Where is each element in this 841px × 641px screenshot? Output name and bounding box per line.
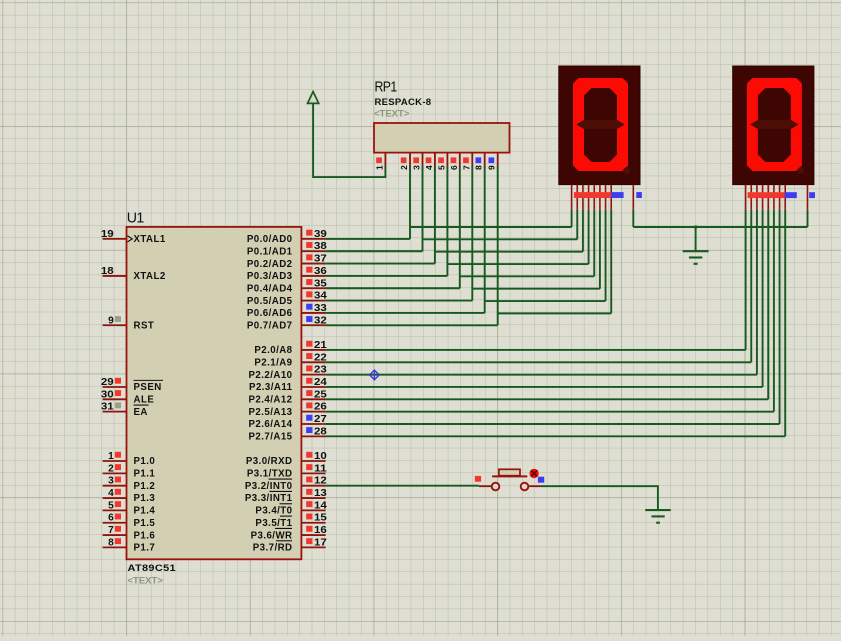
svg-text:26: 26	[314, 402, 328, 413]
svg-text:P1.2: P1.2	[134, 481, 156, 492]
wire net P2.5 (chip pin 26 to 7-seg2)	[326, 210, 774, 412]
svg-text:7: 7	[108, 525, 114, 536]
svg-text:11: 11	[314, 463, 328, 474]
svg-text:3: 3	[412, 165, 422, 170]
svg-text:P2.5/A13: P2.5/A13	[249, 407, 293, 418]
wire net P0.3 (chip pin 36 to RP1 pin 5 / 7-seg1)	[326, 166, 589, 276]
svg-text:17: 17	[314, 537, 327, 548]
svg-text:1: 1	[108, 451, 114, 462]
pin 23 P2.2/A10 (right)	[249, 365, 328, 381]
pin 32 P0.7/AD7 (right)	[247, 315, 327, 331]
svg-text:P2.6/A14: P2.6/A14	[249, 419, 293, 430]
svg-text:37: 37	[314, 254, 327, 265]
svg-text:P3.6/WR: P3.6/WR	[251, 530, 293, 541]
svg-text:<TEXT>: <TEXT>	[374, 109, 410, 120]
svg-text:XTAL1: XTAL1	[134, 234, 166, 245]
svg-text:P0.7/AD7: P0.7/AD7	[247, 320, 293, 331]
svg-text:22: 22	[314, 352, 327, 363]
wire P3.2/INT0 to button	[326, 485, 479, 487]
pin 7 of RP1	[461, 153, 472, 170]
svg-text:27: 27	[314, 414, 327, 425]
button actuator marker	[529, 469, 538, 478]
svg-text:4: 4	[424, 165, 434, 170]
svg-text:19: 19	[101, 229, 115, 240]
svg-text:36: 36	[314, 266, 328, 277]
7-segment display DS1 body	[559, 66, 640, 185]
lit segments (digit 0) of DS1	[573, 78, 628, 171]
wire net P2.4 (chip pin 25 to 7-seg2)	[326, 210, 769, 400]
pin 4 of RP1	[424, 153, 435, 170]
svg-text:5: 5	[108, 500, 114, 511]
pin 21 P2.0/A8 (right)	[254, 340, 327, 356]
svg-text:32: 32	[314, 315, 327, 326]
svg-text:P1.3: P1.3	[134, 493, 156, 504]
pin 12 P3.2/INT0 (right)	[245, 476, 327, 492]
svg-text:P0.6/AD6: P0.6/AD6	[247, 308, 293, 319]
pin 8 of RP1	[474, 153, 485, 170]
wire net P2.6 (chip pin 27 to 7-seg2)	[326, 210, 780, 424]
pin 14 P3.4/T0 (right)	[255, 500, 327, 516]
pin 6 of RP1	[449, 153, 460, 170]
svg-text:PSEN: PSEN	[134, 382, 162, 393]
pin 25 P2.4/A12 (right)	[249, 389, 328, 405]
svg-text:P3.0/RXD: P3.0/RXD	[246, 456, 293, 467]
svg-text:24: 24	[314, 377, 328, 388]
svg-text:P0.1/AD1: P0.1/AD1	[247, 246, 293, 257]
pin 30 ALE (left)	[101, 389, 154, 405]
node marker (blue diamond) on P2.2 wire	[370, 370, 380, 381]
pin 38 P0.1/AD1 (right)	[247, 241, 328, 257]
svg-text:U1: U1	[127, 209, 144, 226]
svg-text:35: 35	[314, 278, 328, 289]
pin 13 P3.3/INT1 (right)	[245, 488, 328, 504]
pin 3 P1.2 (left)	[103, 476, 156, 492]
svg-text:2: 2	[399, 165, 409, 170]
svg-text:P0.3/AD3: P0.3/AD3	[247, 271, 293, 282]
svg-text:P1.6: P1.6	[134, 530, 156, 541]
svg-text:39: 39	[314, 229, 328, 240]
svg-text:13: 13	[314, 488, 328, 499]
svg-text:P0.4/AD4: P0.4/AD4	[247, 283, 293, 294]
svg-text:3: 3	[108, 476, 114, 487]
pin 2 of RP1	[399, 153, 410, 170]
svg-text:P1.0: P1.0	[134, 456, 156, 467]
pin 34 P0.5/AD5 (right)	[247, 291, 328, 307]
svg-text:21: 21	[314, 340, 328, 351]
pin markers of DS2	[748, 192, 785, 198]
svg-text:P2.3/A11: P2.3/A11	[249, 382, 293, 393]
pin 19 XTAL1 (left)	[101, 229, 166, 245]
pin 11 P3.1/TXD (right)	[247, 463, 328, 479]
svg-text:14: 14	[314, 500, 328, 511]
svg-text:P3.2/INT0: P3.2/INT0	[245, 481, 293, 492]
pin 33 P0.6/AD6 (right)	[247, 303, 328, 319]
svg-text:38: 38	[314, 241, 328, 252]
ground symbol GND2	[645, 510, 671, 523]
svg-text:P3.3/INT1: P3.3/INT1	[245, 493, 293, 504]
junction dot	[694, 226, 697, 229]
7-segment display DS2 body	[733, 66, 814, 185]
svg-text:P0.2/AD2: P0.2/AD2	[247, 259, 293, 270]
wire button to ground	[541, 486, 658, 510]
resistor-pack RP1 body	[374, 123, 510, 153]
svg-text:30: 30	[101, 389, 114, 400]
svg-text:P1.1: P1.1	[134, 469, 156, 480]
wire net P2.2 (chip pin 23 to 7-seg2)	[326, 210, 757, 375]
svg-text:P2.2/A10: P2.2/A10	[249, 370, 293, 381]
svg-text:P3.7/RD: P3.7/RD	[253, 543, 293, 554]
pin 31 EA (left)	[101, 402, 149, 418]
pin 9 RST (left)	[103, 315, 155, 331]
svg-text:16: 16	[314, 525, 328, 536]
svg-text:9: 9	[108, 315, 114, 326]
pin 24 P2.3/A11 (right)	[249, 377, 327, 393]
svg-text:P3.5/T1: P3.5/T1	[255, 518, 292, 529]
svg-text:8: 8	[108, 537, 114, 548]
push button component	[479, 469, 541, 490]
svg-text:12: 12	[314, 476, 327, 487]
pin 39 P0.0/AD0 (right)	[247, 229, 328, 245]
wire net P2.7 (chip pin 28 to 7-seg2)	[326, 210, 786, 437]
pin 8 P1.7 (left)	[103, 537, 156, 553]
wire common-cathode net to ground	[633, 210, 807, 251]
svg-text:34: 34	[314, 291, 328, 302]
svg-text:RST: RST	[134, 320, 155, 331]
svg-text:<TEXT>: <TEXT>	[128, 576, 164, 587]
unlit decimal point of DS1	[623, 167, 630, 174]
unlit decimal point of DS2	[797, 167, 804, 174]
pin 7 P1.6 (left)	[103, 525, 156, 541]
svg-text:P2.4/A12: P2.4/A12	[249, 395, 293, 406]
pin 36 P0.3/AD3 (right)	[247, 266, 328, 282]
svg-text:29: 29	[101, 377, 115, 388]
svg-text:ALE: ALE	[134, 395, 155, 406]
pin 9 of RP1	[487, 153, 498, 170]
svg-text:8: 8	[474, 165, 484, 170]
wire net P2.3 (chip pin 24 to 7-seg2)	[326, 210, 763, 387]
ground symbol GND1	[683, 251, 709, 264]
svg-text:1: 1	[374, 165, 384, 170]
svg-text:RP1: RP1	[375, 79, 397, 96]
pin 28 P2.7/A15 (right)	[249, 426, 328, 442]
svg-text:P1.7: P1.7	[134, 543, 156, 554]
svg-text:6: 6	[108, 513, 114, 524]
svg-text:23: 23	[314, 365, 328, 376]
pin 3 of RP1	[412, 153, 423, 170]
wire net P0.6 (chip pin 33 to RP1 pin 8 / 7-seg1)	[326, 166, 606, 313]
svg-text:15: 15	[314, 513, 328, 524]
pin 2 P1.1 (left)	[103, 463, 156, 479]
svg-text:10: 10	[314, 451, 327, 462]
svg-text:28: 28	[314, 426, 328, 437]
svg-text:9: 9	[487, 165, 497, 170]
pin 5 of RP1	[436, 153, 447, 170]
wire net P0.7 (chip pin 32 to RP1 pin 9 / 7-seg1)	[326, 166, 612, 325]
svg-text:P3.1/TXD: P3.1/TXD	[247, 469, 293, 480]
pin 26 P2.5/A13 (right)	[249, 402, 328, 418]
button pin markers	[475, 476, 481, 482]
pin 5 P1.4 (left)	[103, 500, 156, 516]
svg-text:P0.0/AD0: P0.0/AD0	[247, 234, 293, 245]
wire net P0.5 (chip pin 34 to RP1 pin 7 / 7-seg1)	[326, 166, 600, 301]
wire net P0.1 (chip pin 38 to RP1 pin 3 / 7-seg1)	[326, 166, 578, 251]
svg-text:33: 33	[314, 303, 328, 314]
svg-text:6: 6	[449, 165, 459, 170]
svg-text:18: 18	[101, 266, 115, 277]
svg-text:AT89C51: AT89C51	[128, 563, 177, 574]
pin 10 P3.0/RXD (right)	[246, 451, 327, 467]
unlit middle segment G of DS2	[750, 120, 799, 128]
pins of display DS1	[572, 185, 634, 210]
unlit middle segment G of DS1	[576, 120, 625, 128]
pin 1 P1.0 (left)	[103, 451, 156, 467]
pin 17 P3.7/RD (right)	[253, 537, 327, 553]
pins of display DS2	[746, 185, 808, 210]
svg-text:P2.0/A8: P2.0/A8	[254, 345, 292, 356]
svg-text:P1.4: P1.4	[134, 506, 156, 517]
pin 15 P3.5/T1 (right)	[255, 513, 327, 529]
lit segments (digit 0) of DS2	[747, 78, 802, 171]
wire net P0.2 (chip pin 37 to RP1 pin 4 / 7-seg1)	[326, 166, 583, 264]
svg-text:31: 31	[101, 402, 115, 413]
svg-text:P2.1/A9: P2.1/A9	[254, 358, 292, 369]
pin 29 PSEN (left)	[101, 377, 163, 393]
svg-text:2: 2	[108, 463, 114, 474]
svg-text:P0.5/AD5: P0.5/AD5	[247, 296, 293, 307]
svg-text:25: 25	[314, 389, 328, 400]
power symbol (arrow)	[308, 92, 319, 104]
pin 18 XTAL2 (left)	[101, 266, 166, 282]
svg-text:P3.4/T0: P3.4/T0	[255, 506, 292, 517]
svg-text:EA: EA	[134, 407, 148, 418]
pin 16 P3.6/WR (right)	[251, 525, 328, 541]
svg-text:7: 7	[461, 165, 471, 170]
wire net P2.0 (chip pin 21 to 7-seg2)	[326, 210, 746, 350]
pin 37 P0.2/AD2 (right)	[247, 254, 327, 270]
svg-text:XTAL2: XTAL2	[134, 271, 166, 282]
svg-text:RESPACK-8: RESPACK-8	[375, 97, 432, 108]
pin 27 P2.6/A14 (right)	[249, 414, 327, 430]
wire net P0.4 (chip pin 35 to RP1 pin 6 / 7-seg1)	[326, 166, 595, 288]
svg-text:5: 5	[436, 165, 446, 170]
wire net P0.0 (chip pin 39 to RP1 pin 2 / 7-seg1)	[326, 166, 572, 239]
svg-text:P2.7/A15: P2.7/A15	[249, 432, 293, 443]
wire power to RP1 pin 1	[313, 104, 385, 177]
svg-text:P1.5: P1.5	[134, 518, 156, 529]
op U1 AT89C51 microcontroller body	[127, 227, 302, 559]
wire net P2.1 (chip pin 22 to 7-seg2)	[326, 210, 752, 362]
pin markers of DS1	[574, 192, 611, 198]
pin 1 of RP1	[374, 153, 385, 170]
pin 6 P1.5 (left)	[103, 513, 156, 529]
svg-text:4: 4	[108, 488, 114, 499]
pin 35 P0.4/AD4 (right)	[247, 278, 328, 294]
pin 22 P2.1/A9 (right)	[254, 352, 326, 368]
pin 4 P1.3 (left)	[103, 488, 156, 504]
